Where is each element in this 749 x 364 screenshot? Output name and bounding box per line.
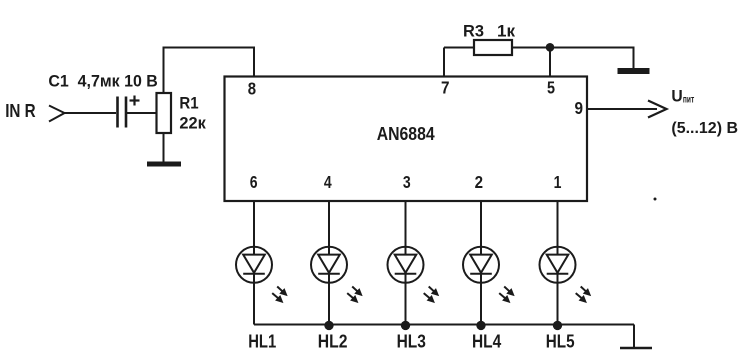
svg-text:HL1: HL1 bbox=[248, 331, 276, 352]
HL2 light arrows bbox=[347, 287, 362, 303]
LED HL2 bbox=[311, 247, 347, 283]
svg-text:4: 4 bbox=[324, 172, 332, 192]
svg-text:HL3: HL3 bbox=[397, 331, 426, 352]
wire node A to top ground bbox=[550, 48, 634, 69]
svg-text:1к: 1к bbox=[497, 21, 515, 40]
resistor R3 bbox=[474, 40, 512, 55]
svg-text:R3: R3 bbox=[463, 21, 484, 40]
end bar ground bbox=[620, 347, 652, 349]
svg-text:HL2: HL2 bbox=[318, 331, 348, 352]
svg-text:пит: пит bbox=[683, 94, 694, 105]
LED HL3 bbox=[388, 247, 424, 283]
svg-text:R1: R1 bbox=[179, 93, 198, 112]
svg-text:7: 7 bbox=[441, 78, 450, 98]
wire pin 6 to HL1 bbox=[253, 201, 255, 255]
wire HL5 to rail bbox=[557, 274, 559, 325]
svg-text:1: 1 bbox=[554, 172, 562, 192]
rail drop wire bbox=[633, 325, 635, 349]
wire node A to pin 5 bbox=[549, 48, 551, 77]
junction dot HL4 bbox=[476, 321, 485, 330]
wire HL4 to rail bbox=[480, 274, 482, 325]
junction dot HL2 bbox=[324, 321, 333, 330]
svg-text:2: 2 bbox=[475, 172, 483, 192]
svg-text:IN R: IN R bbox=[5, 101, 36, 121]
HL1 light arrows bbox=[272, 287, 287, 303]
wire pin 3 to HL3 bbox=[405, 201, 407, 255]
output arrow bbox=[648, 101, 667, 118]
svg-text:8: 8 bbox=[248, 79, 257, 99]
capacitor C1 bbox=[118, 96, 140, 128]
wire pin 7 up bbox=[443, 48, 445, 77]
resistor R1 bbox=[157, 93, 172, 133]
HL3 light arrows bbox=[424, 287, 439, 303]
wire R1 bottom to ground bbox=[163, 133, 165, 162]
svg-text:22к: 22к bbox=[179, 114, 206, 133]
IC U1 AN6884 bbox=[225, 77, 588, 202]
ground under R1 bbox=[147, 162, 181, 167]
wire pin 2 to HL4 bbox=[480, 201, 482, 255]
svg-text:6: 6 bbox=[250, 172, 258, 192]
svg-text:(5...12) В: (5...12) В bbox=[671, 120, 738, 137]
LED HL1 bbox=[236, 247, 272, 283]
LED HL5 bbox=[540, 247, 576, 283]
junction dot HL3 bbox=[401, 321, 410, 330]
bottom rail wire bbox=[254, 324, 634, 326]
wire HL3 to rail bbox=[405, 274, 407, 325]
wire HL2 to rail bbox=[328, 274, 330, 325]
wire pin 4 to HL2 bbox=[328, 201, 330, 255]
junction dot HL5 bbox=[553, 321, 562, 330]
node A junction dot bbox=[546, 43, 555, 52]
svg-text:U: U bbox=[671, 86, 682, 105]
svg-text:3: 3 bbox=[403, 172, 411, 192]
wire R1 top to pin 8 bbox=[164, 48, 255, 94]
wire C1 to R1 bbox=[126, 112, 157, 114]
wire R3 to node A bbox=[512, 47, 550, 49]
HL4 light arrows bbox=[499, 287, 514, 303]
input arrow bbox=[49, 106, 65, 122]
svg-text:9: 9 bbox=[575, 98, 584, 118]
HL5 light arrows bbox=[576, 287, 591, 303]
svg-text:AN6884: AN6884 bbox=[377, 124, 435, 144]
svg-text:C1 4,7мк 10 В: C1 4,7мк 10 В bbox=[48, 73, 157, 91]
wire input to C1 bbox=[65, 112, 117, 114]
speck artifact bbox=[654, 198, 657, 201]
ground top right bbox=[618, 68, 650, 74]
svg-text:HL4: HL4 bbox=[472, 331, 502, 352]
wire HL1 to rail bbox=[253, 274, 255, 325]
wire pin 1 to HL5 bbox=[557, 201, 559, 255]
svg-text:5: 5 bbox=[547, 78, 555, 98]
wire pin 7 to R3 bbox=[444, 47, 474, 49]
svg-text:HL5: HL5 bbox=[546, 331, 575, 352]
LED HL4 bbox=[463, 247, 499, 283]
wire pin 9 output bbox=[587, 108, 657, 110]
